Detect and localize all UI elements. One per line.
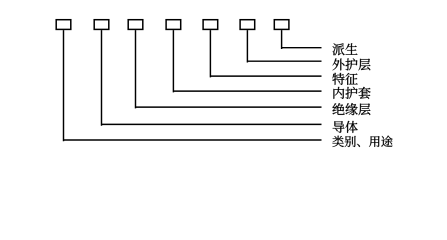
- label 派生: [333, 43, 358, 55]
- label 导体: [333, 121, 358, 133]
- wire box 2 to label 导体: [101, 30, 322, 126]
- box 1 (类别、用途): [56, 20, 71, 30]
- wire box 4 to label 内护套: [173, 30, 322, 92]
- box 2 (导体): [94, 20, 109, 30]
- label 外护层: [333, 58, 371, 70]
- box 7 (派生): [274, 20, 289, 30]
- label 绝缘层: [333, 103, 371, 115]
- box 3 (绝缘层): [128, 20, 143, 30]
- label 类别、用途: [332, 136, 392, 147]
- box 6 (外护层): [240, 20, 255, 30]
- label 内护套: [333, 87, 370, 99]
- wire box 3 to label 绝缘层: [135, 30, 322, 108]
- wire box 1 to label 类别、用途: [63, 30, 322, 141]
- box 4 (内护套): [166, 20, 181, 30]
- box 5 (特征): [203, 20, 218, 30]
- wire box 7 to label 派生: [281, 30, 322, 49]
- label 特征: [332, 73, 357, 85]
- wire box 5 to label 特征: [210, 30, 322, 77]
- wire box 6 to label 外护层: [247, 30, 322, 62]
